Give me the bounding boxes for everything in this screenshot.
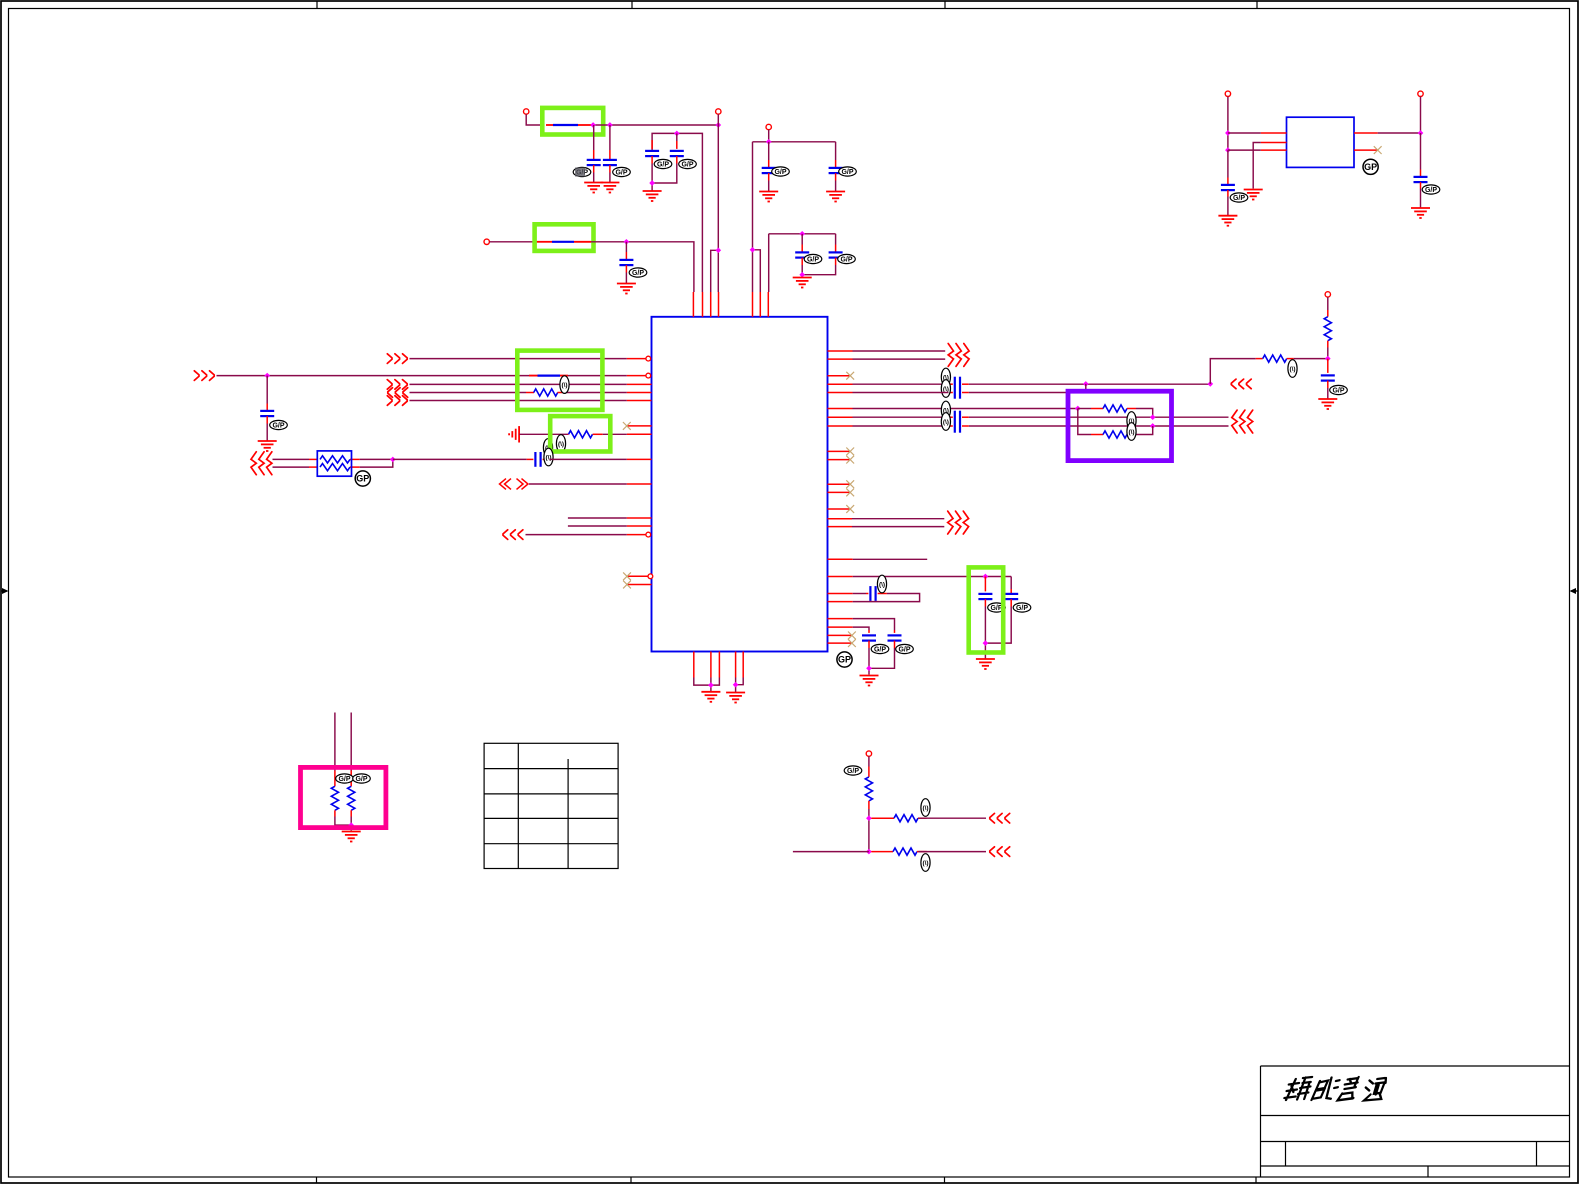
- resistor R8: [350, 771, 352, 787]
- capacitor C5: [762, 142, 776, 191]
- wire stub pair row a: [568, 517, 627, 519]
- capacitor C1: [587, 125, 601, 182]
- wire row 392.5 right: [969, 392, 1070, 394]
- capacitor C15: [1010, 577, 1012, 590]
- pin bubble row1: [646, 356, 651, 361]
- pin bubble row 576.3: [648, 574, 653, 579]
- wire row 408.5: [853, 408, 1078, 410]
- label C7: [804, 254, 822, 263]
- pin J7 top right: [1225, 91, 1230, 96]
- company logo calligraphy: [1284, 1077, 1387, 1101]
- ground: [793, 278, 812, 288]
- resistor R5 in purple box: [1078, 408, 1091, 410]
- ground: [759, 192, 778, 202]
- label R10: [921, 799, 930, 817]
- label C17: [896, 644, 914, 653]
- wire row 851.6 left: [793, 851, 869, 853]
- highlight box green RX group: [517, 351, 602, 410]
- resistor pack RN1: [309, 451, 360, 476]
- junction: [1083, 381, 1089, 387]
- wire J3 down: [768, 130, 770, 142]
- ground: [342, 832, 361, 842]
- pin J3: [766, 124, 771, 129]
- junction: [750, 247, 756, 253]
- wire row 426 right: [969, 425, 1229, 427]
- label C13: [1330, 385, 1348, 394]
- label C3: [654, 159, 672, 168]
- ground: [976, 659, 995, 669]
- label R7: [336, 774, 354, 783]
- wire RX row b left: [273, 466, 310, 468]
- U2 pin1: [1261, 132, 1287, 134]
- chevrons left-pointing row 818: [990, 813, 1010, 823]
- chip top pin stubs: [693, 292, 768, 317]
- resistor R11 row: [871, 851, 893, 853]
- chevrons row5 right-pointing: [387, 396, 407, 406]
- ground: [1244, 190, 1263, 200]
- U2 pin4 out: [1354, 132, 1378, 134]
- no-connect right 643.1: [848, 639, 856, 647]
- no-connect right 484.2: [846, 480, 854, 488]
- label C8: [838, 254, 856, 263]
- frame tick bottom 2: [630, 1177, 632, 1183]
- rotated ground left: [509, 426, 519, 442]
- wire row 417.2 right: [969, 416, 1229, 418]
- highlight box pink: [301, 767, 386, 827]
- wire FB2 to chip: [591, 242, 694, 292]
- junction: [590, 122, 596, 128]
- junction: [1150, 423, 1156, 429]
- wire tx pair b: [853, 358, 946, 360]
- wire J7 down: [1227, 97, 1229, 151]
- label GP U2: [1363, 159, 1378, 174]
- pin bubble row 534.6: [646, 532, 651, 537]
- U2 pin5 nc: [1354, 149, 1378, 151]
- no-connect left 576.3: [623, 572, 631, 580]
- chevrons tall tx right-pointing: [948, 344, 969, 367]
- label R5: [1127, 412, 1136, 430]
- label C9: [629, 268, 647, 277]
- wire row 384.2 left: [853, 383, 949, 385]
- no-connect right 509: [846, 505, 854, 513]
- capacitor C19: [1227, 150, 1229, 177]
- junction: [264, 373, 270, 379]
- label R2a: [543, 439, 552, 457]
- frame tick bottom 4: [1255, 1177, 1257, 1183]
- wire R2 to chip: [603, 433, 627, 435]
- label C12a: [941, 368, 950, 386]
- frame tick top 4: [1256, 2, 1258, 9]
- chevrons tall pair rows RX: [251, 452, 272, 475]
- junction: [715, 247, 721, 253]
- resistor R1 in green box: [526, 392, 534, 394]
- wire row 593.5 to series cap: [853, 593, 866, 595]
- label C16: [877, 575, 886, 593]
- wire to series cap: [393, 458, 527, 460]
- no-connect right 635.4: [848, 632, 856, 640]
- ground: [643, 191, 662, 201]
- pin J1: [524, 109, 529, 114]
- ground: [826, 192, 845, 202]
- U2 pin3: [1261, 149, 1287, 151]
- capacitor C14 in green box: [984, 577, 986, 592]
- chevrons row3 right-pointing: [387, 380, 407, 390]
- wire J8 down: [1420, 97, 1422, 134]
- junction: [1075, 406, 1081, 412]
- wire row4 right part: [566, 392, 627, 394]
- label C15: [1013, 603, 1031, 612]
- junction: [1225, 130, 1231, 136]
- label J6: [844, 766, 862, 775]
- junction: [674, 131, 680, 137]
- capacitor C3: [645, 140, 659, 191]
- U2 pin2: [1261, 142, 1287, 144]
- capacitor C4: [652, 133, 684, 183]
- junction: [983, 574, 989, 580]
- frame left mid arrow: [2, 588, 9, 594]
- right chip pin red stubs: [828, 351, 853, 643]
- resistor R7: [334, 771, 336, 787]
- wire pair 518.7: [852, 518, 944, 520]
- junction: [766, 139, 772, 145]
- pin J5: [1325, 292, 1330, 297]
- frame tick top 3: [944, 2, 946, 9]
- junction: [866, 815, 872, 821]
- wire up to R3: [1210, 359, 1256, 384]
- junction: [708, 682, 714, 688]
- capacitor C13: [1327, 359, 1329, 373]
- capacitor C17: [853, 619, 895, 630]
- wire row 384.2 right: [969, 383, 1211, 385]
- junction: [390, 457, 396, 463]
- junction: [1325, 356, 1331, 362]
- chip bottom pin stubs: [694, 652, 743, 678]
- label C2: [613, 167, 631, 176]
- highlight box green C14: [969, 567, 1004, 652]
- capacitor C6: [829, 142, 843, 191]
- frame tick top 2: [631, 2, 633, 9]
- wire cap pair top: [652, 133, 702, 292]
- no-connect right 492.4: [846, 489, 854, 497]
- label GP bottom-right of chip: [837, 652, 852, 667]
- no-connect right 459.6: [846, 456, 854, 464]
- wire row3: [410, 383, 627, 385]
- wire J2 down with jog: [711, 114, 719, 292]
- wire bidir row: [529, 483, 627, 485]
- chevrons tall right-pointing rows 518/526: [948, 511, 969, 534]
- chevrons row1 right-pointing: [387, 354, 407, 364]
- wire J4 into FB2: [489, 241, 537, 243]
- junction: [1418, 130, 1424, 136]
- label C6: [839, 167, 857, 176]
- label R11: [921, 854, 930, 872]
- label C21a: [941, 401, 950, 419]
- wire AVCC rail: [753, 142, 836, 292]
- ground wiring bottom group1: [694, 678, 720, 692]
- junction: [799, 272, 805, 278]
- wire tx pair a: [853, 350, 946, 352]
- junction: [866, 665, 872, 671]
- label GP RN1: [355, 471, 370, 486]
- resistor R10 row: [871, 817, 894, 819]
- junction: [624, 239, 630, 245]
- wire RN1 out merge: [360, 459, 393, 467]
- pin J8 top right: [1418, 91, 1423, 96]
- label C12b: [941, 380, 950, 398]
- wire J1 to FB1: [526, 114, 542, 125]
- wire row 576.5: [853, 576, 1012, 578]
- junction: [649, 180, 655, 186]
- series capacitor C16 loop: [866, 593, 868, 595]
- wire row 426 left: [853, 425, 949, 427]
- wire row 534.6: [526, 534, 627, 536]
- label C5: [772, 167, 790, 176]
- label C20: [1422, 185, 1440, 194]
- wire row5: [410, 400, 627, 402]
- series capacitor C11: [527, 458, 534, 460]
- highlight box green FB1: [542, 108, 603, 135]
- highlight box green FB2: [535, 224, 594, 251]
- label C19: [1230, 193, 1248, 202]
- label R2b: [556, 435, 565, 453]
- wire row1: [410, 358, 627, 360]
- resistor R4 pullup: [1327, 297, 1329, 310]
- ferrite bead FB1 body: [546, 124, 553, 126]
- pin bubble row2: [646, 373, 651, 378]
- wire pair 526.6: [852, 526, 944, 528]
- resistor R6 in purple box: [1078, 409, 1091, 435]
- capacitor C20: [1420, 133, 1422, 170]
- ferrite bead FB2 body: [537, 241, 552, 243]
- label C4: [679, 159, 697, 168]
- wire row 392.5 left: [853, 392, 949, 394]
- junction: [733, 682, 739, 688]
- wire row2: [217, 375, 627, 377]
- pin J4: [484, 239, 489, 244]
- wire net VCC1 top: [593, 124, 718, 126]
- junction: [715, 122, 721, 128]
- ground: [726, 693, 745, 703]
- revision table: [484, 743, 618, 868]
- bottom-left vertical wires: [335, 713, 351, 771]
- ground: [1218, 216, 1237, 226]
- label R6: [1127, 423, 1136, 441]
- capacitor C18: [853, 627, 869, 630]
- label C1: [573, 167, 591, 176]
- capacitor C10: [260, 376, 274, 441]
- chip U1: [652, 317, 828, 652]
- ground: [860, 676, 879, 686]
- ground: [701, 692, 720, 702]
- ground: [617, 284, 636, 294]
- chevrons left-pointing row 383.9: [1231, 379, 1251, 389]
- ground: [584, 183, 603, 193]
- wire row 417.2 left: [853, 416, 949, 418]
- label R8: [353, 774, 371, 783]
- wire RX row a left: [273, 458, 310, 460]
- capacitor C8: [802, 234, 842, 275]
- highlight box green R2: [550, 416, 610, 451]
- junction: [348, 822, 354, 828]
- ferrite bead FB3 on row2 inside green box: [529, 375, 538, 377]
- wire R3 to node: [1294, 358, 1328, 360]
- wire lower rail: [769, 234, 836, 292]
- chevrons row2 right-pointing: [194, 371, 214, 381]
- junction: [866, 849, 872, 855]
- stub into purple box: [1085, 384, 1087, 393]
- label C11: [544, 448, 553, 466]
- no-connect right 375.7: [846, 372, 854, 380]
- resistor R9 pullup: [868, 756, 870, 766]
- capacitor C2: [603, 125, 617, 182]
- frame right mid arrow: [1570, 588, 1578, 594]
- label C21b: [941, 413, 950, 431]
- wire stub pair row b: [568, 525, 627, 527]
- chevrons tall left-pointing rows 417/426: [1232, 410, 1253, 433]
- no-connect left 425.9: [623, 422, 631, 430]
- pin J6 bottom: [866, 751, 871, 756]
- capacitor C9: [619, 242, 633, 283]
- wire rotated-gnd to R2: [519, 433, 567, 435]
- wire row 559.3: [853, 558, 928, 560]
- resistor R3: [1256, 358, 1263, 360]
- pin J2: [716, 109, 721, 114]
- frame tick bottom 3: [944, 1177, 946, 1183]
- label C18: [871, 644, 889, 653]
- chevrons left-pointing row 534.6: [503, 530, 523, 540]
- frame tick top 1: [316, 2, 318, 9]
- ground: [258, 441, 277, 451]
- chevrons row4 left-pointing: [388, 388, 408, 398]
- no-connect right 451.4: [846, 448, 854, 456]
- junction: [1207, 381, 1213, 387]
- wire row4 left part: [410, 392, 527, 394]
- bidir arrow glyph: [500, 479, 529, 490]
- no-connect left 584.5: [623, 581, 631, 589]
- series capacitor C21: [949, 416, 953, 418]
- series capacitor C12: [949, 383, 953, 385]
- capacitor C7: [795, 234, 809, 275]
- junction: [607, 122, 613, 128]
- label C14: [988, 603, 1006, 612]
- chevrons left-pointing row 851: [990, 847, 1010, 857]
- highlight box purple: [1068, 391, 1172, 460]
- wire C11 to chip: [550, 458, 627, 460]
- ground wiring bottom group2: [736, 678, 744, 693]
- resistor R2 in green box: [568, 433, 569, 435]
- label C10: [270, 420, 288, 429]
- junction: [799, 231, 805, 237]
- junction: [1150, 414, 1156, 420]
- frame tick bottom 1: [316, 1177, 318, 1183]
- junction: [1225, 147, 1231, 153]
- label FB3: [560, 376, 569, 394]
- left chip pin red stubs: [627, 359, 652, 585]
- ground: [600, 183, 619, 193]
- title block: [1261, 1066, 1570, 1177]
- ground: [1411, 208, 1430, 218]
- regulator U2: [1287, 117, 1355, 167]
- label R3: [1288, 360, 1297, 378]
- ground: [1318, 399, 1337, 409]
- junction: [983, 640, 989, 646]
